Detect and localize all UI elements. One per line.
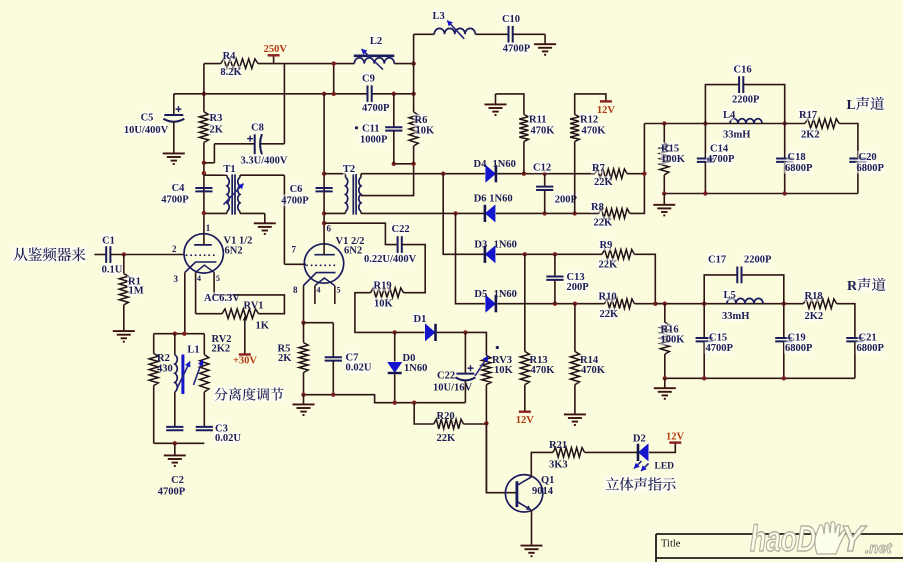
svg-text:1K: 1K — [256, 321, 270, 332]
capacitor C5 10U/400V — [173, 94, 175, 115]
svg-text:12V: 12V — [516, 415, 535, 426]
wire D2 to 12V — [649, 443, 675, 453]
svg-text:C20: C20 — [859, 152, 877, 163]
ground R1 — [113, 331, 135, 342]
wire input — [94, 254, 106, 256]
inductor L2 — [354, 58, 394, 64]
node bus2/C11 — [392, 92, 396, 96]
svg-text:D3: D3 — [474, 240, 487, 251]
node C1/R1 — [122, 252, 126, 256]
capacitor C2 4700P — [166, 427, 183, 430]
svg-text:L4: L4 — [723, 110, 736, 121]
svg-text:haoD: haoD — [750, 518, 816, 559]
node D0 top — [393, 330, 397, 334]
wire C22 right — [402, 245, 425, 293]
wire discr top bus — [154, 333, 205, 335]
svg-text:R11: R11 — [529, 115, 547, 126]
svg-text:C10: C10 — [502, 14, 520, 25]
transformer T1 — [204, 174, 227, 176]
capacitor C1 0.1U — [106, 246, 110, 263]
node label AC6.3V — [203, 292, 234, 304]
wire T2 center tap — [361, 164, 414, 196]
node D0 bottom — [393, 401, 397, 405]
wire L bottom bus — [664, 193, 858, 195]
wire C10 to ground — [513, 33, 545, 35]
svg-text:4700P: 4700P — [158, 487, 186, 498]
diode D0 1N60 — [394, 332, 396, 361]
resistor R1 1M — [123, 255, 125, 274]
svg-text:2200P: 2200P — [732, 95, 760, 106]
svg-text:12V: 12V — [597, 105, 616, 116]
svg-text:6800P: 6800P — [857, 343, 885, 354]
wire D5 input riser — [456, 213, 485, 303]
resistor R10 22K — [605, 299, 635, 309]
node C22b top — [463, 330, 467, 334]
resistor R7 22K — [595, 169, 627, 179]
capacitor C12 200P — [544, 174, 546, 187]
op-amp V1 2/2 6N2 triode — [304, 244, 343, 283]
wire heater pin4 — [195, 272, 197, 313]
node C15 bottom — [702, 376, 706, 380]
wire D3 out — [496, 253, 602, 255]
svg-text:R21: R21 — [549, 440, 567, 451]
capacitor C6 4700P — [316, 188, 333, 191]
svg-text:.net: .net — [865, 540, 893, 557]
wire bus2 — [174, 93, 368, 95]
svg-text:470K: 470K — [531, 126, 556, 137]
node V1b plate — [322, 221, 326, 225]
node bus1/link — [332, 61, 336, 65]
resistor R12 470K — [575, 94, 606, 115]
svg-text:R17: R17 — [799, 110, 817, 121]
node T1 prim bottom — [202, 211, 206, 215]
svg-text:4700P: 4700P — [706, 343, 734, 354]
capacitor C19 6800P — [783, 304, 785, 338]
transformer T2 — [324, 173, 345, 175]
node bus2/R3 — [202, 92, 206, 96]
wire bus1 250V rail — [204, 63, 221, 65]
ground Q1 — [521, 546, 543, 557]
node R9/R10 — [653, 302, 657, 306]
capacitor C18 6800P — [784, 124, 786, 158]
svg-text:1N60: 1N60 — [404, 363, 427, 374]
svg-text:C5: C5 — [141, 113, 154, 124]
node bus1/R6 — [411, 61, 415, 65]
power terminal +30V — [239, 353, 251, 355]
svg-text:4: 4 — [197, 274, 201, 283]
resistor R6 10K — [413, 64, 415, 112]
svg-text:470K: 470K — [531, 365, 556, 376]
resistor R14 470K — [574, 304, 576, 352]
wire heater stubs V1b — [314, 286, 316, 304]
capacitor C8 3.3U/400V — [255, 134, 262, 155]
svg-text:10K: 10K — [494, 365, 514, 376]
svg-text:0.1U: 0.1U — [102, 265, 123, 276]
svg-text:C4: C4 — [172, 183, 186, 194]
wire T2 riser — [323, 94, 325, 223]
wire discr bottom bus — [154, 442, 205, 444]
svg-text:22K: 22K — [437, 433, 457, 444]
svg-text:3.3U/400V: 3.3U/400V — [241, 156, 288, 167]
svg-text:200P: 200P — [567, 282, 590, 293]
wire RV1 left — [196, 313, 222, 315]
wire T2 sec bottom — [361, 212, 485, 214]
capacitor C22 0.22U/400V — [398, 236, 402, 253]
svg-text:D6: D6 — [474, 193, 487, 204]
node tap/C11 — [392, 162, 396, 166]
inductor L5 33mH — [727, 298, 763, 303]
svg-text:2K2: 2K2 — [805, 311, 824, 322]
svg-text:1: 1 — [206, 223, 211, 233]
svg-text:2200P: 2200P — [744, 255, 772, 266]
svg-text:1N60: 1N60 — [494, 240, 517, 251]
capacitor C20 6800P — [849, 159, 866, 162]
svg-text:C8: C8 — [251, 123, 264, 134]
node R16 top — [663, 302, 667, 306]
node C12 bottom — [543, 211, 547, 215]
svg-text:22K: 22K — [600, 309, 620, 320]
node label separation adjust — [213, 387, 285, 403]
svg-text:L: L — [847, 98, 856, 113]
svg-text:Q1: Q1 — [541, 475, 554, 486]
svg-text:1N60: 1N60 — [493, 159, 516, 170]
capacitor C22 10U/16V — [464, 332, 466, 373]
svg-text:6800P: 6800P — [785, 163, 813, 174]
svg-text:R18: R18 — [805, 291, 823, 302]
node T2 bottom — [322, 211, 326, 215]
node cathode2 — [301, 321, 305, 325]
resistor RV2 2K2 — [203, 334, 205, 355]
wire bus1-bus2 link — [333, 64, 335, 94]
node RV3/R20 — [484, 421, 488, 425]
svg-text:1M: 1M — [129, 286, 144, 297]
svg-text:C17: C17 — [708, 255, 726, 266]
svg-text:R7: R7 — [592, 163, 605, 174]
ground R5 — [293, 404, 315, 415]
svg-text:L3: L3 — [432, 11, 444, 22]
wire collector — [531, 452, 553, 477]
diode D2 LED — [638, 443, 649, 461]
resistor R18 2K2 — [803, 299, 836, 309]
capacitor C21 6800P — [846, 338, 863, 341]
svg-text:R2: R2 — [157, 353, 170, 364]
svg-text:R4: R4 — [223, 51, 237, 62]
svg-text:6N2: 6N2 — [344, 246, 362, 257]
capacitor C17 2200P — [704, 275, 737, 304]
svg-text:7: 7 — [292, 245, 297, 255]
ground R filter — [654, 388, 676, 399]
node bus2/T2riser — [322, 92, 326, 96]
svg-text:C11: C11 — [362, 124, 380, 135]
svg-text:430: 430 — [157, 364, 173, 375]
wire R19 left down — [355, 293, 425, 333]
svg-text:100K: 100K — [661, 154, 686, 165]
svg-text:4700P: 4700P — [503, 44, 531, 55]
svg-text:2K2: 2K2 — [212, 344, 231, 355]
svg-text:L5: L5 — [724, 290, 736, 301]
node R12 bottom — [573, 211, 577, 215]
diode D4 1N60 — [485, 165, 496, 183]
wire D4 out — [497, 173, 594, 175]
svg-text:4: 4 — [317, 286, 321, 295]
resistor R11 470K — [496, 94, 524, 115]
node R11 bottom — [522, 172, 526, 176]
svg-text:10K: 10K — [416, 126, 436, 137]
svg-text:T2: T2 — [343, 164, 355, 175]
diode D1 1N60 — [425, 323, 436, 341]
resistor R3 2K — [203, 64, 205, 112]
capacitor C16 2200P — [705, 85, 739, 124]
resistor R16 100K — [664, 304, 666, 323]
capacitor C14 4700P — [704, 124, 706, 158]
svg-text:2K2: 2K2 — [801, 130, 820, 141]
svg-text:8: 8 — [293, 285, 298, 295]
svg-text:0.02U: 0.02U — [346, 363, 372, 374]
wire heater pin5 — [213, 272, 215, 295]
capacitor C11 1000P — [393, 94, 395, 127]
svg-text:D2: D2 — [633, 434, 646, 445]
wire T1 sec top to V1b grid — [240, 174, 284, 176]
svg-text:R10: R10 — [599, 292, 617, 303]
svg-text:L2: L2 — [370, 36, 382, 47]
wire emitter — [531, 510, 533, 545]
wire C8 right to bus1 — [261, 143, 285, 145]
svg-text:0.22U/400V: 0.22U/400V — [364, 254, 417, 265]
resistor R4 — [221, 59, 258, 69]
svg-text:8.2K: 8.2K — [220, 67, 242, 78]
wire R8 to R7 riser — [630, 124, 645, 214]
wire R main — [655, 303, 803, 305]
wire cathode V1b — [303, 286, 305, 323]
wire R17 to C20 — [839, 124, 858, 158]
svg-text:L1: L1 — [187, 345, 199, 356]
node L5 left — [702, 302, 706, 306]
resistor RV1 1K — [222, 309, 259, 319]
svg-text:R9: R9 — [600, 240, 613, 251]
wire RV1 right loop — [214, 295, 284, 314]
node C19 bottom — [782, 376, 786, 380]
resistor R2 430 — [153, 334, 155, 354]
svg-text:4700P: 4700P — [362, 103, 390, 114]
wire to grid — [110, 254, 184, 256]
svg-text:C12: C12 — [533, 162, 551, 173]
svg-text:C22: C22 — [392, 224, 410, 235]
svg-text:D4: D4 — [474, 159, 488, 170]
wire D5 out — [497, 303, 604, 305]
svg-text:2K: 2K — [278, 353, 292, 364]
svg-text:0.02U: 0.02U — [215, 433, 241, 444]
node D3 riser — [441, 172, 445, 176]
svg-text:AC6.3V: AC6.3V — [204, 293, 240, 304]
wire cathode V1a — [184, 273, 186, 334]
svg-text:9014: 9014 — [532, 486, 554, 497]
node R5 bottom — [301, 393, 305, 397]
svg-text:4700P: 4700P — [281, 196, 309, 207]
wire bottom net — [304, 395, 466, 403]
node R14 top — [573, 302, 577, 306]
svg-text:R19: R19 — [374, 281, 392, 292]
wire R18 to C21 — [837, 304, 855, 338]
svg-text:2: 2 — [172, 244, 177, 254]
node L5 right — [782, 302, 786, 306]
transistor Q1 9014 — [505, 475, 542, 512]
svg-text:R12: R12 — [580, 115, 598, 126]
resistor R19 10K — [371, 288, 404, 298]
svg-text:100K: 100K — [661, 335, 686, 346]
wire L3 branch — [413, 34, 415, 63]
capacitor C4 4700P — [195, 188, 212, 191]
svg-text:6800P: 6800P — [785, 343, 813, 354]
wire R10 out — [634, 303, 664, 305]
resistor R20 22K — [414, 403, 434, 424]
svg-text:250V: 250V — [264, 44, 288, 55]
node cathode riser — [182, 332, 186, 336]
power terminal 12V (R12) — [600, 100, 612, 102]
svg-text:RV1: RV1 — [244, 301, 264, 312]
ground C2 — [164, 455, 186, 466]
ground L filter — [653, 205, 675, 216]
ground R11 — [495, 94, 497, 104]
wire cathode stub — [304, 322, 334, 324]
svg-text:6800P: 6800P — [857, 163, 885, 174]
node input text — [12, 246, 87, 263]
resistor R8 22K — [599, 209, 630, 219]
svg-text:C6: C6 — [290, 184, 303, 195]
capacitor C7 0.02U — [332, 323, 334, 357]
resistor R15 100K — [663, 124, 665, 143]
node bus2/R6 — [411, 92, 415, 96]
resistor R13 470K — [524, 254, 526, 351]
svg-text:C1: C1 — [102, 236, 115, 247]
node C7 bottom — [331, 393, 335, 397]
svg-text:6: 6 — [327, 224, 332, 234]
inductor L3 — [434, 28, 475, 34]
node D5 riser — [453, 211, 457, 215]
ground T1 — [254, 223, 276, 234]
node R15 top — [662, 121, 666, 125]
wire D3 input riser — [443, 174, 485, 255]
svg-text:1000P: 1000P — [360, 135, 388, 146]
wire R9 out riser — [634, 254, 655, 303]
node bus2/link — [332, 92, 336, 96]
svg-text:470K: 470K — [582, 126, 607, 137]
diode D5 1N60 — [485, 295, 496, 313]
node C12 top — [543, 172, 547, 176]
svg-text:T1: T1 — [223, 164, 235, 175]
svg-text:1N60: 1N60 — [489, 193, 512, 204]
svg-text:2K: 2K — [210, 125, 224, 136]
svg-text:C16: C16 — [734, 65, 752, 76]
node C13 bottom — [553, 302, 557, 306]
ground C10 — [534, 44, 556, 55]
ground R14 — [564, 414, 586, 425]
capacitor C15 4700P — [703, 304, 705, 338]
svg-text:470K: 470K — [581, 365, 606, 376]
svg-text:4700P: 4700P — [161, 195, 189, 206]
svg-text:D1: D1 — [414, 314, 427, 325]
node L4 left — [703, 121, 707, 125]
wire RV1 wiper — [244, 317, 246, 332]
resistor RV3 10K — [482, 355, 491, 384]
diode D6 1N60 — [485, 204, 496, 222]
svg-text:10U/400V: 10U/400V — [124, 125, 169, 136]
node R20 riser — [412, 401, 416, 405]
svg-text:22K: 22K — [594, 177, 614, 188]
node bottom bus — [173, 441, 177, 445]
power terminal 12V (LED) — [669, 441, 681, 443]
svg-text:33mH: 33mH — [723, 130, 750, 141]
node T2 top — [322, 172, 326, 176]
svg-text:C22: C22 — [437, 371, 455, 382]
node R13 riser top — [523, 252, 527, 256]
resistor R17 2K2 — [805, 119, 839, 129]
LED arrows — [634, 461, 642, 469]
wire D6 out — [496, 212, 599, 214]
node label stereo indicator — [604, 476, 677, 492]
power terminal 12V (R13) — [519, 411, 531, 413]
resistor R9 22K — [602, 250, 634, 260]
svg-text:R8: R8 — [591, 202, 604, 213]
wire L main — [644, 123, 805, 125]
inductor L4 33mH — [730, 119, 762, 124]
svg-text:C18: C18 — [788, 152, 806, 163]
node tap/R6 — [411, 162, 415, 166]
wire C8 left — [204, 162, 215, 164]
svg-text:22K: 22K — [594, 218, 614, 229]
node C13 top — [553, 252, 557, 256]
title block — [656, 534, 903, 562]
capacitor C3 0.02U — [196, 427, 213, 430]
svg-text:R3: R3 — [210, 113, 223, 124]
wire R bottom bus — [665, 377, 855, 379]
svg-text:3K3: 3K3 — [549, 460, 568, 471]
svg-text:12V: 12V — [666, 432, 685, 443]
ground C5 — [163, 153, 185, 164]
capacitor C9 4700P — [368, 85, 372, 102]
svg-text:10K: 10K — [374, 299, 394, 310]
wire V1b plate to C22 — [324, 223, 397, 244]
wire D1 to RV3 — [437, 332, 486, 355]
op-amp V1 1/2 6N2 triode — [184, 234, 223, 273]
svg-text:3: 3 — [174, 274, 179, 284]
wire base — [486, 423, 515, 492]
svg-text:R20: R20 — [437, 411, 455, 422]
logo haoDIY.net — [750, 518, 893, 559]
svg-text:6N2: 6N2 — [225, 246, 243, 257]
svg-text:5: 5 — [216, 274, 220, 283]
diode D3 1N60 — [485, 245, 496, 263]
node C8 stub — [202, 161, 206, 165]
svg-text:4700P: 4700P — [707, 154, 735, 165]
power terminal 250V — [273, 55, 275, 63]
svg-text:22K: 22K — [599, 260, 619, 271]
svg-text:1N60: 1N60 — [494, 289, 517, 300]
node C14 bottom — [703, 191, 707, 195]
wire R21 to D2 — [585, 451, 638, 453]
svg-text:D5: D5 — [474, 289, 487, 300]
svg-text:33mH: 33mH — [722, 311, 749, 322]
svg-text:Title: Title — [661, 539, 681, 550]
node R7/R8 — [642, 172, 646, 176]
capacitor C10 4700P — [509, 26, 513, 43]
node R15 bottom — [662, 191, 666, 195]
node L1 top — [173, 332, 177, 336]
node L4 right — [783, 121, 787, 125]
resistor R5 2K — [303, 323, 305, 343]
node R16 bottom — [663, 376, 667, 380]
inductor L1 — [174, 334, 176, 355]
svg-text:Y: Y — [840, 518, 867, 559]
